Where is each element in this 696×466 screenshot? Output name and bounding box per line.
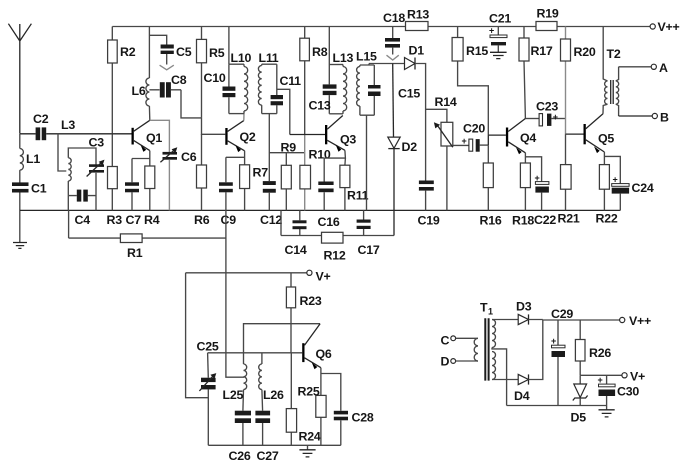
svg-text:D4: D4 xyxy=(514,389,530,403)
svg-text:R21: R21 xyxy=(558,212,580,226)
svg-text:+: + xyxy=(462,136,467,146)
T2 primary winding xyxy=(603,27,607,82)
tank L10/C10: riser to rail xyxy=(228,27,230,65)
trimmer capacitor C6 xyxy=(160,147,177,210)
svg-text:L11: L11 xyxy=(259,51,279,65)
inductor L11 xyxy=(258,64,261,113)
wire: C1 column below rail xyxy=(19,210,21,242)
variable resistor R14 xyxy=(434,122,453,147)
capacitor C5 xyxy=(149,35,173,70)
T2 secondary winding xyxy=(616,81,619,104)
wire: C8 to R5 column xyxy=(181,90,202,118)
svg-text:V+: V+ xyxy=(630,370,645,384)
inductor L6 xyxy=(146,78,150,120)
svg-text:R15: R15 xyxy=(466,44,488,58)
T1 secondary winding upper xyxy=(492,320,496,348)
wire: IF sub-line C14/R12/C17 xyxy=(281,210,394,235)
capacitor C14 xyxy=(293,210,307,235)
svg-text:C11: C11 xyxy=(280,74,302,88)
inductor L13 xyxy=(343,65,347,114)
svg-text:V++: V++ xyxy=(629,314,651,328)
resistor R2 xyxy=(108,27,118,134)
inductor L10 xyxy=(244,64,248,113)
capacitor C28 xyxy=(334,411,348,446)
capacitor C1 xyxy=(12,182,29,210)
trimmer capacitor C3 xyxy=(87,160,105,177)
svg-text:C23: C23 xyxy=(536,100,558,114)
resistor R8 xyxy=(300,27,310,135)
svg-text:1: 1 xyxy=(488,307,493,317)
resistor R24 xyxy=(286,353,296,446)
svg-text:R5: R5 xyxy=(209,46,225,60)
wire: antenna feed line to Q1 base node xyxy=(20,133,113,135)
inductor L3 xyxy=(68,148,96,196)
resistor R13 xyxy=(406,22,429,31)
svg-text:A: A xyxy=(659,61,668,75)
svg-text:D3: D3 xyxy=(516,300,532,314)
svg-text:C20: C20 xyxy=(463,122,485,136)
wire + terminal V+ (psu) xyxy=(580,370,645,384)
resistor R20 xyxy=(561,27,571,135)
resistor R23 xyxy=(286,273,295,353)
wire: R14 column to rail xyxy=(446,146,448,210)
capacitor C26 xyxy=(235,411,251,446)
wire: R9 line xyxy=(269,152,304,154)
svg-text:+: + xyxy=(598,375,603,385)
svg-text:R14: R14 xyxy=(435,95,457,109)
svg-text:L26: L26 xyxy=(263,388,284,402)
terminal V++ (top) xyxy=(650,20,679,34)
svg-text:C7: C7 xyxy=(126,213,142,227)
wire: rail drop to R1 line xyxy=(68,210,70,238)
svg-text:L13: L13 xyxy=(333,51,354,65)
capacitor C10 xyxy=(223,64,236,113)
wire: tank bottom L11/C11 xyxy=(262,113,277,115)
capacitor C29 (electrolytic) xyxy=(551,320,565,406)
T1 primary winding xyxy=(474,338,478,361)
wire: C3 column to C4 line and rail xyxy=(95,173,97,211)
svg-text:T: T xyxy=(480,301,488,315)
svg-text:R17: R17 xyxy=(531,44,553,58)
svg-text:+: + xyxy=(535,173,540,183)
svg-text:C19: C19 xyxy=(418,214,440,228)
capacitor C18 xyxy=(385,27,400,61)
svg-text:R12: R12 xyxy=(324,249,346,263)
svg-text:C22: C22 xyxy=(534,213,556,227)
svg-text:T2: T2 xyxy=(607,47,621,61)
resistor R26 xyxy=(575,320,585,375)
wire: C15 column xyxy=(392,64,395,138)
svg-text:Q1: Q1 xyxy=(146,131,162,145)
capacitor C21 (electrolytic to ground) xyxy=(489,26,507,53)
capacitor C8 xyxy=(149,82,181,97)
capacitor C2 xyxy=(36,127,47,140)
wire: D1 output to AGC column xyxy=(415,64,426,181)
capacitor C17 xyxy=(357,210,371,235)
wire: secondary bottom to D4 xyxy=(492,379,518,381)
svg-text:R4: R4 xyxy=(144,213,160,227)
zener diode D5 xyxy=(573,375,588,405)
svg-text:D1: D1 xyxy=(409,44,425,58)
svg-text:R7: R7 xyxy=(253,166,269,180)
capacitor C11 xyxy=(271,64,283,113)
wire: center tap to 0V xyxy=(492,348,507,406)
diode D3 xyxy=(518,314,528,324)
svg-text:V++: V++ xyxy=(658,20,680,34)
ground (C21) xyxy=(490,52,507,58)
svg-text:R10: R10 xyxy=(309,148,331,162)
svg-text:R9: R9 xyxy=(281,141,297,155)
svg-text:R2: R2 xyxy=(120,45,136,59)
svg-text:C3: C3 xyxy=(89,136,105,150)
wire + terminal V+ (oscillator supply) xyxy=(186,270,331,284)
svg-text:R3: R3 xyxy=(107,213,123,227)
svg-text:Q3: Q3 xyxy=(340,133,356,147)
svg-text:R26: R26 xyxy=(589,346,611,360)
transformer T1 xyxy=(474,318,495,380)
main ground rail xyxy=(20,209,621,211)
svg-text:C24: C24 xyxy=(632,181,654,195)
svg-text:C16: C16 xyxy=(318,215,340,229)
svg-text:B: B xyxy=(660,111,669,125)
resistor R19 xyxy=(536,22,557,31)
wire: Q1 emitter node xyxy=(132,151,150,166)
svg-text:R8: R8 xyxy=(312,45,328,59)
capacitor C7 xyxy=(125,159,139,211)
wire: Q4 base lead xyxy=(488,135,506,145)
svg-text:C5: C5 xyxy=(176,45,192,59)
resistor R18 xyxy=(520,163,530,210)
svg-text:L6: L6 xyxy=(132,84,146,98)
svg-text:C21: C21 xyxy=(489,12,511,26)
svg-text:+: + xyxy=(551,336,556,346)
svg-text:C30: C30 xyxy=(617,385,639,399)
resistor R9 xyxy=(281,153,291,211)
wire: oscillator bottom line xyxy=(208,444,340,446)
svg-text:R16: R16 xyxy=(480,214,502,228)
wire + terminal V++ (psu) xyxy=(543,314,651,328)
resistor R4 xyxy=(145,166,155,210)
wire: Q6 base line xyxy=(208,352,303,354)
svg-text:C8: C8 xyxy=(171,73,187,87)
svg-text:C: C xyxy=(441,334,450,348)
svg-text:R11: R11 xyxy=(347,189,369,203)
svg-text:C9: C9 xyxy=(221,213,237,227)
svg-text:C12: C12 xyxy=(260,213,282,227)
wire + terminal B xyxy=(619,111,669,125)
T1 core xyxy=(485,318,488,380)
transistor Q1 xyxy=(112,120,150,152)
diode D4 xyxy=(518,374,528,384)
wire: tank bottom L13/C13 xyxy=(329,113,343,115)
svg-text:R18: R18 xyxy=(512,214,534,228)
wire: R14 tap from AGC column xyxy=(426,109,447,122)
capacitor C24 (electrolytic) xyxy=(612,175,629,211)
wire: Q6 collector line to L25 xyxy=(244,324,321,364)
inductor L1 xyxy=(20,134,24,183)
resistor R17 xyxy=(519,27,529,119)
resistor R11 xyxy=(340,165,350,210)
capacitor (L15 tank) xyxy=(368,65,381,115)
svg-text:Q2: Q2 xyxy=(240,130,256,144)
tank L13/C13: riser to rail xyxy=(328,27,330,65)
wire: Q1 collector node xyxy=(150,120,170,152)
svg-text:+: + xyxy=(489,26,494,36)
resistor R5 xyxy=(197,27,207,118)
diode D2 xyxy=(388,137,400,149)
resistor R22 xyxy=(599,165,609,211)
inductor L25 xyxy=(243,364,247,411)
wire: Q2 collector to tank bottom xyxy=(243,114,245,121)
wire: tank top L10/C10 xyxy=(229,63,244,65)
wire: rail to L6 column xyxy=(148,27,150,79)
svg-text:+: + xyxy=(553,112,558,122)
capacitor C16 xyxy=(318,158,333,210)
svg-text:C27: C27 xyxy=(257,449,279,463)
resistor R21 xyxy=(561,134,572,210)
svg-text:Q5: Q5 xyxy=(598,132,614,146)
svg-text:C1: C1 xyxy=(31,182,47,196)
resistor R25 xyxy=(316,395,326,445)
ground (oscillator) xyxy=(299,445,315,457)
wire: rectifier output join xyxy=(529,320,543,380)
wire: tank top L15 xyxy=(360,64,374,66)
svg-text:R23: R23 xyxy=(300,294,322,308)
trimmer capacitor C25 xyxy=(199,353,216,446)
wire: D2 to IF sub-line xyxy=(393,149,395,236)
wire: detector line (L15 top to D1) xyxy=(369,63,405,65)
wire: Q4 emitter node xyxy=(525,153,541,182)
resistor R6 xyxy=(197,134,207,210)
svg-text:D5: D5 xyxy=(571,411,587,425)
wire: tank top L13/C13 xyxy=(329,64,343,66)
svg-text:R20: R20 xyxy=(574,45,596,59)
ground (psu) xyxy=(599,410,615,417)
svg-text:L25: L25 xyxy=(223,388,244,402)
wire: R1 feedback line xyxy=(69,237,226,239)
svg-text:C25: C25 xyxy=(197,340,219,354)
transformer T2 xyxy=(603,27,619,117)
wire: Q5 emitter node xyxy=(604,152,620,183)
terminal D xyxy=(441,355,479,369)
wire: Q6 emitter node xyxy=(321,368,341,411)
transistor Q3 xyxy=(325,116,345,152)
inductor L15 xyxy=(357,65,360,115)
wire: psu 0V line xyxy=(507,405,607,407)
top supply rail xyxy=(112,26,650,28)
svg-text:L15: L15 xyxy=(356,50,377,64)
svg-text:R22: R22 xyxy=(596,212,618,226)
capacitor C30 (electrolytic) xyxy=(598,375,616,410)
svg-text:C14: C14 xyxy=(285,243,307,257)
wire: Q2 emitter node xyxy=(226,151,245,165)
wire: L3 tap drop xyxy=(58,134,66,171)
wire: R5 column to Q2 base tap xyxy=(202,118,226,134)
resistor R7 xyxy=(240,165,250,211)
wire: L3 column to rail xyxy=(67,196,69,211)
wire: mixer column to oscillator (C9 column below rail) xyxy=(226,210,244,377)
resistor R12 xyxy=(322,232,344,243)
svg-text:D: D xyxy=(441,355,450,369)
T2 core xyxy=(611,80,614,104)
svg-text:C28: C28 xyxy=(352,411,374,425)
svg-text:C26: C26 xyxy=(229,449,251,463)
transistor Q2 xyxy=(225,121,244,153)
transistor Q6 xyxy=(302,324,321,370)
svg-text:L10: L10 xyxy=(231,51,252,65)
transistor Q5 xyxy=(584,114,605,153)
capacitor C4 xyxy=(68,190,96,202)
svg-text:C10: C10 xyxy=(204,71,226,85)
svg-text:C2: C2 xyxy=(33,112,49,126)
resistor R1 xyxy=(120,234,142,243)
transistor Q4 xyxy=(506,119,526,155)
svg-text:D2: D2 xyxy=(402,140,418,154)
wire: Q5 base lead xyxy=(566,133,584,135)
wire: left loop to C25 bottom xyxy=(186,273,209,398)
resistor R15 xyxy=(452,27,463,62)
svg-text:C13: C13 xyxy=(309,99,331,113)
svg-text:R19: R19 xyxy=(537,7,559,21)
svg-text:R25: R25 xyxy=(298,385,320,399)
capacitor C22 (electrolytic) xyxy=(535,173,549,210)
svg-text:L3: L3 xyxy=(61,118,75,132)
svg-text:R13: R13 xyxy=(407,8,429,22)
resistor R10 xyxy=(300,135,311,211)
svg-text:C4: C4 xyxy=(75,213,91,227)
svg-text:R1: R1 xyxy=(127,246,143,260)
wire: Q3 emitter node xyxy=(324,150,345,165)
capacitor C13 xyxy=(323,65,337,114)
wire: C12 column from tank bottom xyxy=(268,114,270,182)
ground (antenna circuit) xyxy=(13,243,27,249)
capacitor C9 xyxy=(219,157,233,210)
wire + terminal A xyxy=(619,61,668,75)
capacitor C20 (electrolytic) xyxy=(453,136,489,152)
wire: C11 coupling to Q3 base xyxy=(277,89,290,134)
wire: Q3 base lead xyxy=(290,134,325,136)
wire: R15 bias line to Q4 base xyxy=(458,61,489,135)
resistor R16 xyxy=(483,145,493,210)
svg-text:C17: C17 xyxy=(358,243,380,257)
svg-text:C15: C15 xyxy=(398,87,420,101)
svg-text:C18: C18 xyxy=(383,11,405,25)
svg-text:V+: V+ xyxy=(316,270,331,284)
capacitor C23 (coupling electrolytic) xyxy=(525,112,565,126)
resistor R3 xyxy=(108,134,118,211)
wire: tank top L11/C11 xyxy=(262,63,277,65)
terminal C xyxy=(441,334,479,348)
svg-text:C29: C29 xyxy=(551,307,573,321)
wire: tank bottom L10/C10 xyxy=(229,113,244,115)
svg-text:R24: R24 xyxy=(299,430,321,444)
svg-text:Q6: Q6 xyxy=(316,347,332,361)
capacitor C27 xyxy=(255,411,270,446)
svg-text:+: + xyxy=(613,175,618,185)
inductor L26 xyxy=(259,353,263,411)
diode D1 xyxy=(405,58,416,70)
wire: secondary top to D3 xyxy=(492,319,518,321)
wire: tank bottom L15 and drop to rail xyxy=(360,115,374,210)
svg-text:Q4: Q4 xyxy=(520,131,536,145)
capacitor C12 xyxy=(263,181,276,210)
svg-text:L1: L1 xyxy=(26,152,40,166)
svg-text:R6: R6 xyxy=(194,213,210,227)
antenna xyxy=(8,24,31,134)
T1 secondary winding lower xyxy=(492,352,496,380)
capacitor C19 xyxy=(419,181,434,211)
svg-text:C6: C6 xyxy=(181,150,197,164)
